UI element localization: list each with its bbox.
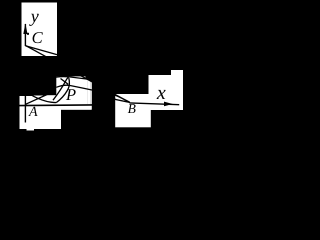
svg-text:x: x	[156, 82, 166, 104]
svg-text:C: C	[32, 28, 44, 47]
svg-text:A: A	[28, 105, 38, 120]
svg-text:P: P	[65, 85, 76, 104]
svg-text:B: B	[128, 101, 136, 116]
svg-text:y: y	[29, 6, 39, 26]
